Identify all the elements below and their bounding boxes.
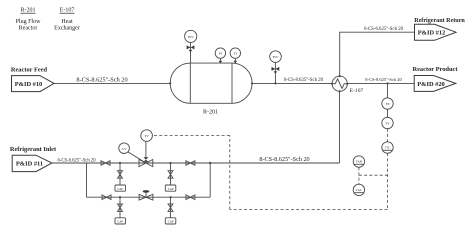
svg-text:TAL: TAL [356, 188, 362, 192]
signal wire: TAH to TAL (dashed) [358, 167, 360, 184]
drain stub 1 (main line) [115, 162, 126, 191]
solenoid S/V [119, 143, 146, 163]
svg-text:PSV: PSV [188, 35, 195, 39]
svg-text:CAP: CAP [117, 187, 123, 191]
signal wire: up to TV level (dashed) [229, 135, 231, 209]
off-page connector: Refrigerant Return P&ID #12 [414, 18, 465, 41]
globe valve (bypass) [139, 190, 153, 200]
wire: exchanger shell out up to refrigerant return [340, 32, 415, 76]
gate valve (main line left) [101, 161, 110, 166]
gate valve (bypass right) [186, 195, 195, 200]
node bypass junction [209, 162, 211, 164]
node vessel outlet [251, 82, 253, 84]
svg-text:8-CS-8.625"-Sch 20: 8-CS-8.625"-Sch 20 [284, 78, 324, 83]
svg-text:Reactor Feed: Reactor Feed [11, 67, 48, 74]
temperature indicator TI (on vessel) [230, 48, 240, 64]
svg-text:PI: PI [219, 52, 223, 56]
svg-text:PSV: PSV [273, 55, 279, 59]
svg-text:8-CS-8.625"-Sch 20: 8-CS-8.625"-Sch 20 [365, 77, 402, 82]
drain stub 3 (bypass) [115, 196, 126, 224]
svg-text:Refrigerant Inlet: Refrigerant Inlet [10, 146, 57, 153]
svg-text:P&ID #10: P&ID #10 [15, 81, 43, 88]
reactor R-201 vessel [170, 63, 252, 103]
gate valve (bypass left) [102, 195, 111, 200]
controller TIC [382, 142, 393, 153]
svg-text:CAP: CAP [117, 220, 123, 224]
wire: exchanger outlet to reactor product [347, 82, 414, 84]
signal wire: alarm branch to controller leg (dashed) [359, 174, 388, 176]
heat exchanger E-107 [331, 75, 364, 94]
drain stub 4 (bypass) [165, 196, 176, 224]
svg-text:Plug Flow: Plug Flow [16, 19, 42, 25]
wire: bypass left drop [86, 163, 88, 197]
vessel tangent line right [231, 63, 233, 103]
wire: TE to TY [387, 109, 389, 117]
off-page connector: Reactor Feed P&ID #10 [11, 67, 54, 92]
legend equipment tag E-107 [54, 8, 80, 32]
svg-text:CAP: CAP [168, 187, 174, 191]
svg-text:R-201: R-201 [21, 8, 36, 14]
svg-text:TE: TE [385, 102, 389, 106]
off-page connector: Reactor Product P&ID #20 [412, 66, 458, 91]
svg-text:Reactor Product: Reactor Product [412, 66, 458, 73]
control valve TV [139, 130, 153, 167]
signal wire: TY to TIC (dashed) [387, 129, 389, 142]
svg-text:TAH: TAH [356, 160, 363, 164]
off-page connector: Refrigerant Inlet P&ID #11 [10, 146, 57, 172]
svg-text:P&ID #12: P&ID #12 [418, 30, 446, 37]
wire: tap to TE [387, 83, 389, 97]
alarm TAL [353, 184, 364, 195]
gate valve (main line right) [186, 161, 195, 166]
svg-text:6-CS-6.625"-Sch 20: 6-CS-6.625"-Sch 20 [364, 27, 404, 32]
svg-text:8-CS-8.625"-Sch 20: 8-CS-8.625"-Sch 20 [76, 77, 127, 84]
signal wire: bottom run to valve loop (dashed) [230, 209, 388, 211]
svg-text:P&ID #11: P&ID #11 [16, 161, 43, 168]
signal wire: to TV (dashed) [152, 134, 230, 136]
vessel tangent line left [189, 63, 191, 103]
transducer TY [382, 117, 393, 128]
wire: riser to exchanger [339, 91, 341, 163]
svg-text:E-107: E-107 [350, 88, 364, 94]
svg-text:Exchanger: Exchanger [54, 26, 80, 32]
relief valve PSV (on outlet line) [270, 51, 282, 85]
svg-text:CAP: CAP [168, 220, 174, 224]
svg-text:E-107: E-107 [60, 8, 75, 14]
svg-text:P&ID #20: P&ID #20 [417, 81, 445, 88]
relief valve PSV (on vessel) [185, 30, 197, 63]
svg-text:TV: TV [144, 134, 149, 138]
wire: reactor outlet to exchanger [252, 82, 332, 84]
svg-text:Reactor: Reactor [19, 26, 38, 32]
wire: reactor feed line [54, 82, 170, 84]
svg-text:R-201: R-201 [203, 110, 218, 116]
node vessel inlet [169, 82, 171, 84]
svg-text:TI: TI [234, 52, 238, 56]
temperature element TE [382, 98, 393, 109]
svg-text:8-CS-8.625"-Sch 20: 8-CS-8.625"-Sch 20 [259, 156, 309, 163]
pressure indicator PI (on vessel) [215, 48, 225, 64]
svg-text:S/V: S/V [122, 147, 128, 151]
svg-text:TIC: TIC [385, 146, 390, 150]
svg-text:Heat: Heat [61, 19, 73, 25]
wire: refrigerant main line [52, 162, 340, 164]
legend equipment tag R-201 [16, 8, 42, 32]
wire: bypass right riser [209, 163, 211, 197]
wire: bypass line [87, 196, 211, 198]
alarm TAH [353, 156, 364, 167]
svg-text:Refrigerant Return: Refrigerant Return [414, 18, 465, 24]
drain stub 2 (main line) [165, 162, 176, 191]
svg-text:TY: TY [385, 122, 390, 126]
node product line tap [386, 82, 388, 84]
signal wire: TIC down (dashed) [387, 153, 389, 209]
